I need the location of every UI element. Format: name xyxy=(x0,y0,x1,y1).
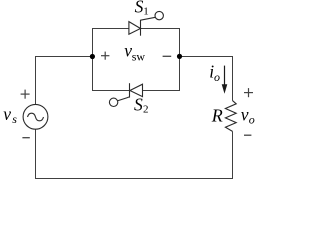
svg-text:S: S xyxy=(134,94,143,114)
label plus of vo xyxy=(244,88,253,97)
source vs circle xyxy=(23,104,48,129)
svg-text:sw: sw xyxy=(132,50,146,64)
svg-text:R: R xyxy=(211,105,223,125)
label minus of v_sw xyxy=(163,55,172,57)
wire left branch vertical xyxy=(92,28,94,91)
svg-text:o: o xyxy=(249,113,255,127)
wire bottom rail of switch left segment xyxy=(92,90,130,92)
wire top rail right segment xyxy=(141,28,181,30)
wire resistor bottom xyxy=(232,131,234,179)
wire top rail left segment xyxy=(92,28,129,30)
resistor R zigzag xyxy=(225,101,236,132)
wire middle-left rail xyxy=(35,56,93,58)
thyristor S2 xyxy=(109,83,142,106)
arrow i_o xyxy=(222,66,228,94)
wire bottom rail of switch right segment xyxy=(143,90,181,92)
wire source bottom xyxy=(35,129,37,179)
wire middle-right rail xyxy=(179,56,233,58)
thyristor S1 xyxy=(129,11,164,35)
svg-text:o: o xyxy=(214,70,220,84)
label plus of source xyxy=(21,90,30,99)
source sine wave xyxy=(28,113,44,121)
wire right branch vertical xyxy=(179,28,181,91)
svg-text:2: 2 xyxy=(143,104,149,116)
wire resistor top xyxy=(232,57,234,101)
node left junction xyxy=(90,54,95,59)
node right junction xyxy=(177,54,182,59)
label minus of source xyxy=(22,137,29,139)
svg-text:v: v xyxy=(241,104,249,124)
wire source top xyxy=(35,57,37,105)
label plus of v_sw xyxy=(101,52,109,60)
svg-text:v: v xyxy=(3,104,11,124)
svg-text:s: s xyxy=(12,112,17,126)
wire bottom rail xyxy=(35,178,233,180)
label minus of vo xyxy=(244,134,251,136)
svg-text:1: 1 xyxy=(143,6,149,18)
